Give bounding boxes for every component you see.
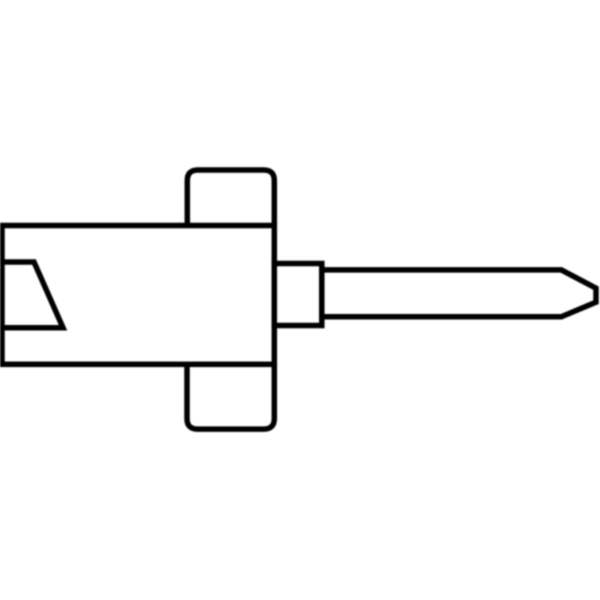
- bottom tab: [187, 363, 274, 429]
- spike shaft with tip: [322, 270, 596, 317]
- top tab: [187, 170, 274, 226]
- vent trapezoid: [2, 262, 63, 328]
- body: [2, 226, 274, 365]
- neck: [274, 264, 322, 326]
